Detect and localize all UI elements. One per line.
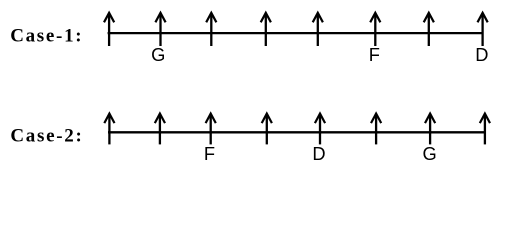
arrow case-1 #6	[370, 13, 380, 46]
arrow case-1 #3	[206, 13, 216, 46]
svg-text:G: G	[422, 143, 436, 164]
svg-text:G: G	[151, 44, 165, 65]
svg-text:F: F	[369, 44, 380, 65]
arrow case-1 #2	[155, 13, 165, 46]
arrow case-2 #5	[315, 114, 325, 145]
arrow case-1 #7	[424, 13, 434, 46]
arrow case-1 #4	[261, 13, 271, 46]
arrow case-2 #3	[206, 114, 216, 145]
arrow case-2 #4	[262, 114, 272, 145]
svg-text:D: D	[312, 143, 325, 164]
wire case-1 baseline	[108, 32, 484, 34]
arrow case-2 #7	[425, 114, 435, 145]
svg-text:F: F	[204, 143, 215, 164]
arrow case-1 #1	[104, 13, 114, 46]
svg-text:Case-1:: Case-1:	[10, 26, 83, 47]
wire case-2 baseline	[108, 131, 486, 133]
arrow case-1 #5	[313, 13, 323, 46]
svg-text:Case-2:: Case-2:	[10, 125, 83, 146]
arrow case-2 #6	[371, 114, 381, 145]
arrow case-2 #1	[104, 114, 114, 145]
arrow case-1 #8	[478, 13, 488, 46]
arrow case-2 #8	[480, 114, 490, 145]
arrow case-2 #2	[155, 114, 165, 145]
svg-text:D: D	[475, 44, 488, 65]
